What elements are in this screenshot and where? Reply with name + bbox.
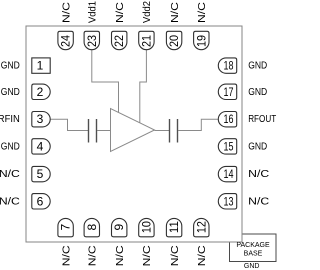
pin 3 (RFIN) (0, 112, 50, 127)
pin 15 (GND) (218, 139, 267, 154)
svg-text:15: 15 (224, 139, 234, 153)
pin 11 (N/C) (166, 218, 181, 266)
pin 14 (N/C) (218, 166, 269, 181)
pin 5 (N/C) (0, 166, 50, 181)
svg-text:N/C: N/C (248, 195, 269, 207)
svg-text:24: 24 (59, 35, 73, 47)
svg-text:5: 5 (37, 167, 44, 181)
svg-text:19: 19 (194, 35, 208, 47)
svg-text:Vdd1: Vdd1 (87, 1, 99, 23)
svg-text:N/C: N/C (114, 245, 126, 266)
svg-text:1: 1 (37, 59, 44, 73)
svg-text:18: 18 (224, 59, 234, 73)
svg-text:N/C: N/C (141, 245, 153, 266)
svg-text:23: 23 (85, 35, 99, 47)
svg-text:GND: GND (248, 140, 267, 152)
package outline (26, 26, 242, 242)
svg-text:N/C: N/C (60, 245, 72, 266)
pin 4 (GND) (1, 139, 50, 154)
pin 22 (N/C) (112, 2, 127, 50)
svg-text:13: 13 (224, 194, 234, 208)
svg-text:21: 21 (139, 35, 153, 47)
svg-text:GND: GND (248, 86, 267, 98)
svg-text:GND: GND (1, 86, 20, 98)
svg-text:10: 10 (139, 221, 153, 233)
wire RFIN (pin 3) to C1 (50, 119, 88, 130)
svg-text:N/C: N/C (196, 245, 208, 266)
svg-text:RFIN: RFIN (0, 113, 20, 125)
svg-text:N/C: N/C (0, 168, 20, 180)
svg-text:N/C: N/C (248, 168, 269, 180)
package base paddle box (under package outline) (230, 234, 277, 262)
svg-text:N/C: N/C (60, 2, 72, 23)
pin 20 (N/C) (166, 2, 181, 50)
pin 17 (GND) (218, 84, 267, 99)
pin 23 (Vdd1) (84, 1, 99, 50)
svg-text:N/C: N/C (114, 2, 126, 23)
svg-text:N/C: N/C (87, 245, 99, 266)
svg-text:N/C: N/C (196, 2, 208, 23)
svg-text:12: 12 (194, 221, 208, 233)
svg-text:GND: GND (1, 140, 20, 152)
svg-text:Vdd2: Vdd2 (141, 1, 153, 23)
wire C1 to amplifier input (97, 130, 111, 132)
pin 8 (N/C) (84, 218, 99, 266)
pin 19 (N/C) (194, 2, 209, 50)
wire Vdd1 (pin 23) to amplifier (92, 50, 119, 113)
pin 16 (RFOUT) (218, 112, 276, 127)
pin 6 (N/C) (0, 194, 50, 209)
pin 21 (Vdd2) (139, 1, 154, 50)
svg-text:8: 8 (85, 223, 99, 230)
capacitor C2 (output DC block) (170, 119, 178, 143)
svg-text:22: 22 (112, 35, 126, 47)
wire C2 to RFOUT (pin 16) (178, 119, 218, 130)
svg-text:2: 2 (37, 85, 44, 99)
svg-text:4: 4 (37, 139, 44, 153)
svg-text:11: 11 (167, 221, 181, 233)
svg-text:20: 20 (167, 35, 181, 47)
svg-text:9: 9 (112, 223, 126, 230)
svg-text:17: 17 (224, 85, 234, 99)
pin 2 (GND) (1, 84, 50, 99)
svg-text:RFOUT: RFOUT (248, 113, 276, 125)
pin 9 (N/C) (112, 218, 127, 266)
svg-text:14: 14 (224, 167, 234, 181)
svg-text:N/C: N/C (0, 195, 20, 207)
pin 13 (N/C) (218, 194, 269, 209)
svg-text:6: 6 (37, 194, 44, 208)
pin 24 (N/C) (58, 2, 73, 50)
package base box labels (236, 242, 270, 258)
op-amp U1 (amplifier triangle) (111, 109, 155, 152)
capacitor C1 (input DC block) (89, 119, 97, 143)
svg-text:GND: GND (248, 60, 267, 72)
pin 12 (N/C) (194, 218, 209, 266)
pin 7 (N/C) (58, 218, 73, 266)
wire Vdd2 (pin 21) to amplifier (140, 50, 147, 123)
svg-text:GND: GND (1, 60, 20, 72)
pin 10 (N/C) (139, 218, 154, 266)
pin 1 (GND) (1, 58, 50, 73)
svg-text:16: 16 (224, 112, 234, 126)
svg-text:BASE: BASE (244, 251, 263, 258)
svg-text:N/C: N/C (169, 2, 181, 23)
wire amplifier output to C2 (155, 130, 170, 132)
svg-text:N/C: N/C (169, 245, 181, 266)
svg-text:7: 7 (59, 223, 73, 230)
svg-text:PACKAGE: PACKAGE (236, 242, 270, 249)
svg-text:3: 3 (37, 112, 44, 126)
svg-text:GND: GND (244, 263, 260, 270)
pin 18 (GND) (218, 58, 267, 73)
